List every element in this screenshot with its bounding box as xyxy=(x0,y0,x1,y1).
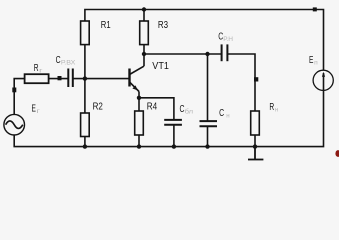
svg-text:R2: R2 xyxy=(93,102,104,113)
svg-text:E: E xyxy=(309,55,313,66)
node junction C_n ground rail xyxy=(205,144,209,148)
svg-text:VT1: VT1 xyxy=(152,61,169,72)
wire R3 top xyxy=(143,10,145,22)
wire R1 bottom to R2 top xyxy=(84,45,86,113)
node emitter xyxy=(137,96,141,100)
svg-text:п: п xyxy=(314,59,318,66)
node marker square on load branch xyxy=(254,77,258,81)
wire R3 bottom / collector xyxy=(143,45,145,67)
node marker square on generator branch xyxy=(12,88,16,93)
node output line / C_n branch xyxy=(205,52,209,56)
collector diagonal xyxy=(130,66,144,74)
capacitor C_p.n (output coupling) xyxy=(222,44,228,61)
svg-text:R3: R3 xyxy=(158,20,168,31)
capacitor C_p.vx (input coupling) xyxy=(68,69,73,88)
svg-text:н: н xyxy=(226,112,229,119)
wire C_p.vx to base xyxy=(73,78,130,80)
node marker square on input wire xyxy=(58,76,62,80)
resistor R2 xyxy=(81,102,104,137)
svg-text:Р.ВХ: Р.ВХ xyxy=(61,59,76,66)
svg-text:Р.Н: Р.Н xyxy=(223,36,233,43)
svg-text:R1: R1 xyxy=(101,20,111,31)
wire top rail xyxy=(85,10,324,71)
wire input line left xyxy=(14,79,24,115)
wire R_g to C_p.vx xyxy=(49,78,69,80)
red artifact dot bottom right xyxy=(335,150,339,157)
source E_p (supply, current source) xyxy=(309,55,333,91)
svg-text:E: E xyxy=(32,104,36,115)
resistor R1 xyxy=(81,20,111,45)
wire emitter to C_bl xyxy=(139,98,174,120)
wire bottom rail xyxy=(14,91,323,147)
emitter arrow xyxy=(132,85,137,90)
svg-text:R: R xyxy=(34,63,39,74)
wire R2 bottom xyxy=(84,137,86,147)
wire R4 bottom xyxy=(138,135,140,147)
source E_g (sine generator) xyxy=(4,104,41,136)
wire C_n bottom xyxy=(207,126,209,146)
svg-text:R4: R4 xyxy=(147,102,158,113)
wire C_p.n to corner xyxy=(227,54,255,111)
wire C_bl bottom xyxy=(173,125,175,147)
resistor R4 xyxy=(135,102,158,135)
svg-text:C: C xyxy=(219,108,224,119)
transistor VT1 xyxy=(130,61,170,91)
ground xyxy=(248,147,263,160)
node junction R2 ground rail xyxy=(83,144,87,148)
emitter diagonal xyxy=(130,82,140,92)
node junction R_n ground rail xyxy=(253,144,257,148)
svg-text:R: R xyxy=(269,102,274,113)
resistor Rg (generator) xyxy=(25,63,49,83)
base bar xyxy=(128,69,130,87)
capacitor C_bl (emitter bypass) xyxy=(164,120,182,125)
node collector xyxy=(142,52,146,56)
svg-text:н: н xyxy=(275,106,278,113)
capacitor C_n (load capacitance) xyxy=(200,121,218,126)
node junction R4 ground rail xyxy=(137,144,141,148)
node junction R3 top rail xyxy=(142,7,146,11)
wire emitter to R4 xyxy=(138,92,140,112)
svg-text:бл: бл xyxy=(185,108,194,115)
wire C_n branch xyxy=(207,54,209,121)
resistor Rn (load) xyxy=(251,102,279,135)
node base (R1/R2 divider) xyxy=(83,76,87,80)
node junction C_bl ground rail xyxy=(172,144,176,148)
node marker square on top rail xyxy=(313,7,317,11)
wire output line xyxy=(144,53,222,55)
wire R_n bottom xyxy=(254,135,256,147)
resistor R3 xyxy=(140,20,169,45)
